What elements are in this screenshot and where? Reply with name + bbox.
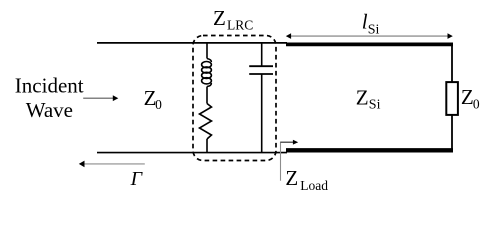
svg-text:Incident: Incident [15, 73, 84, 97]
svg-text:Z: Z [285, 166, 298, 190]
svg-text:Si: Si [369, 98, 381, 113]
svg-text:0: 0 [473, 96, 480, 111]
svg-text:Γ: Γ [130, 168, 144, 190]
svg-text:Z: Z [461, 85, 474, 109]
svg-text:LRC: LRC [227, 18, 253, 33]
svg-text:Load: Load [300, 178, 328, 193]
svg-text:Z: Z [356, 85, 369, 109]
svg-text:Wave: Wave [26, 98, 73, 122]
svg-text:0: 0 [155, 97, 162, 112]
svg-text:Z: Z [213, 6, 226, 30]
svg-text:Si: Si [368, 23, 380, 38]
